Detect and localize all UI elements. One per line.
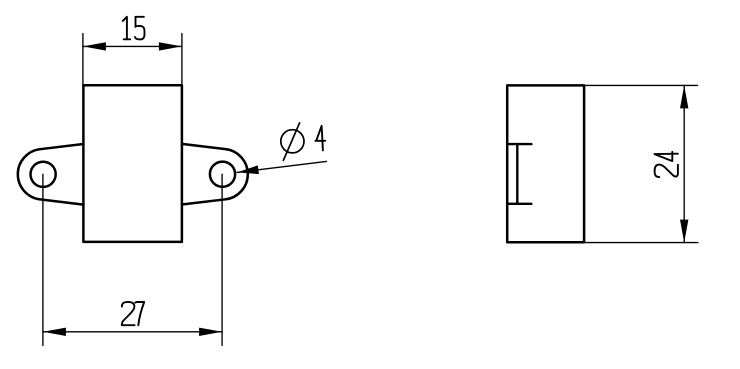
dim 27 arrow right: [199, 328, 222, 336]
diameter symbol circle: [281, 130, 304, 153]
leader line for hole callout: [237, 161, 326, 172]
front view body rectangle: [83, 85, 181, 242]
dim text 24 digit 2: [655, 165, 678, 178]
callout text digit 4: [315, 126, 325, 150]
dim 24 arrow top: [680, 85, 688, 108]
side view ear bottom edge: [507, 203, 531, 205]
side view ear inner edge: [516, 144, 518, 204]
dim 15 extension line right: [181, 34, 183, 85]
dim 24 arrow bottom: [680, 220, 688, 243]
side view body rectangle: [507, 85, 584, 242]
dim 24 extension line top: [584, 84, 697, 86]
dim 24 dimension line: [683, 85, 685, 242]
right hole: [210, 162, 235, 187]
left ear (tab) outline: [18, 144, 84, 205]
dim text 15 digit 1: [123, 17, 130, 40]
dim text 27 digit 7: [135, 302, 144, 325]
dim 27 extension line left (from left hole center): [42, 174, 44, 345]
dim 27 dimension line: [43, 331, 222, 333]
dim text 27 digit 2: [122, 302, 135, 325]
dim 27 arrow left: [43, 328, 66, 336]
dim 27 extension line right (from right hole center): [221, 174, 223, 345]
dim text 24 digit 4: [655, 152, 678, 161]
dim text 24 (rotated): [655, 152, 678, 177]
diameter symbol slash: [283, 123, 299, 160]
dim 15 extension line left: [82, 34, 84, 85]
right ear (tab) outline: [182, 144, 248, 205]
dim 15 arrow right: [159, 42, 182, 50]
dim 15 dimension line: [83, 45, 182, 47]
dim 15 arrow left: [83, 42, 106, 50]
left hole: [30, 162, 55, 187]
dim 24 extension line bottom: [586, 242, 698, 244]
dim text 15 digit 5: [135, 17, 145, 40]
side view ear top edge: [507, 143, 531, 145]
leader arrowhead: [237, 165, 259, 174]
